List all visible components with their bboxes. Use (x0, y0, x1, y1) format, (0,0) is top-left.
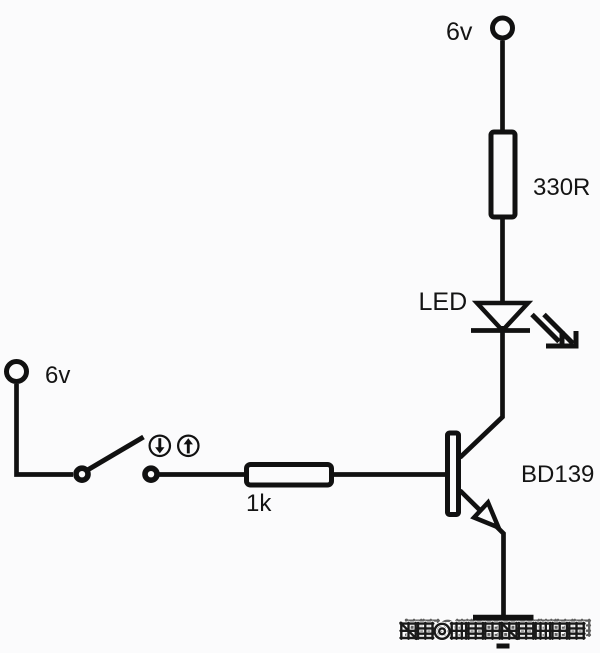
ground bar 1 (473, 615, 534, 621)
transistor Q1 emitter arrowhead (474, 503, 499, 528)
wire left terminal to switch (17, 384, 74, 475)
press indicator down arrow (150, 436, 170, 456)
resistor R1 330R body (491, 132, 515, 217)
wire switch to resistor R2 (158, 472, 245, 477)
svg-text:330R: 330R (533, 174, 590, 201)
LED D1 cathode bar (471, 328, 530, 333)
wire terminal to resistor R1 (500, 41, 505, 133)
wire resistor R2 to transistor base (334, 472, 446, 477)
wire LED cathode to transistor collector (460, 326, 503, 458)
svg-text:6v: 6v (45, 362, 70, 389)
ground bar 3 (497, 644, 510, 649)
svg-text:LED: LED (419, 288, 468, 316)
release indicator up arrow (178, 436, 198, 456)
switch SW1 right contact (145, 468, 157, 480)
svg-text:6v: 6v (446, 18, 473, 46)
ground bar 2 (485, 629, 521, 634)
switch SW1 lever (85, 437, 144, 472)
LED D1 triangle (477, 303, 528, 331)
resistor R2 1k body (247, 465, 332, 486)
wire resistor to LED (500, 217, 505, 305)
LED light arrow 2 (544, 315, 576, 347)
transistor Q1 emitter wire (460, 491, 504, 617)
watermark zhihu (401, 620, 591, 639)
LED light arrow 1 (532, 315, 562, 347)
switch SW1 pivot contact (76, 468, 88, 480)
svg-text:1k: 1k (246, 490, 272, 517)
terminal 6v left (7, 362, 27, 382)
transistor Q1 base bar (448, 433, 459, 515)
svg-text:BD139: BD139 (521, 461, 594, 488)
terminal +6v top (493, 18, 513, 38)
